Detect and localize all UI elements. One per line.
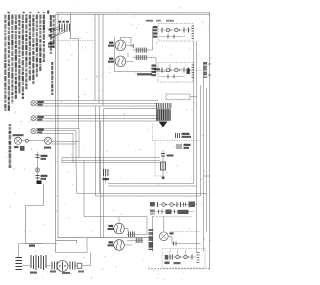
wire fuse link a xyxy=(22,140,26,142)
P2 lamp 1 dot xyxy=(170,29,171,30)
note line 11 xyxy=(39,15,41,20)
right bus wire 1 xyxy=(193,41,195,183)
wire bus C vertical xyxy=(102,14,104,106)
P2B contact bar 1 xyxy=(161,68,163,73)
capacitor lead top xyxy=(19,243,26,245)
wire bake feed horizontal xyxy=(84,216,119,218)
switch stub bar xyxy=(132,44,134,48)
wire bundle2 c xyxy=(36,120,158,122)
wire bundle4 a xyxy=(62,157,160,159)
sensor contact xyxy=(161,153,165,155)
infinite switch SW1 contacts xyxy=(135,48,137,53)
wire run y193 xyxy=(77,192,207,194)
motor box top run xyxy=(26,243,58,245)
chain row1 end blob xyxy=(189,202,196,208)
wire bus L2 corner to lower oven xyxy=(58,237,151,239)
note line 1 xyxy=(4,15,6,20)
P2B wire label blobs xyxy=(152,65,157,67)
P2 internal wire xyxy=(159,29,191,31)
wire E3 top run xyxy=(119,216,147,218)
selector lamp 2 xyxy=(184,255,188,259)
connector box link xyxy=(190,96,197,98)
capacitor lead up xyxy=(18,244,20,258)
surface unit box right xyxy=(169,64,171,72)
wire SW1 feed xyxy=(133,49,148,51)
inner box left vertical xyxy=(70,14,72,38)
latch switch cluster xyxy=(103,169,105,176)
door switch DS2 contact xyxy=(36,175,40,177)
terminal T1 circled-X xyxy=(31,101,36,106)
wire SW2 feed xyxy=(133,56,148,58)
motor internal top line xyxy=(56,251,88,253)
wire E1 drop xyxy=(130,37,132,47)
wire bus F vertical lower xyxy=(103,109,105,238)
wire fuse out right b xyxy=(52,143,76,145)
sensor dashed link xyxy=(155,175,163,177)
right bus wire 4 xyxy=(203,63,205,252)
selector pin header xyxy=(197,252,200,254)
connector P1 pin rows xyxy=(156,103,158,109)
fuse F1 circled-X xyxy=(14,137,21,144)
selector tick 1 xyxy=(169,250,171,254)
control box P2B dashed outline xyxy=(158,63,193,83)
P2B lamp 2 dot xyxy=(179,69,180,70)
wire bus B vertical xyxy=(98,14,100,103)
element E2 label block xyxy=(109,58,114,60)
door switch DS1 contact xyxy=(36,154,40,156)
chain row1 lamp 2 dot xyxy=(174,204,175,205)
wire door chain bottom run xyxy=(26,243,43,245)
selector tick 2 xyxy=(177,250,179,255)
sensor label blob xyxy=(167,155,174,157)
wire bundle3 c drop xyxy=(72,133,74,162)
terminal label L1 N L2 blob xyxy=(59,21,62,23)
wire fuse link b xyxy=(28,140,44,142)
wire E2 up xyxy=(127,53,129,57)
P2B internal wire 2 xyxy=(159,76,185,78)
thermostat cluster bars xyxy=(176,144,178,149)
motor wire mid4 xyxy=(76,265,78,267)
P2 pin header xyxy=(192,25,195,27)
P2B contact bar 2 xyxy=(183,68,185,73)
chain row1 lamp 2 xyxy=(170,203,174,207)
wire label block row2 xyxy=(150,210,155,213)
wire bundle1 a xyxy=(36,100,158,102)
mark above notes c xyxy=(38,12,40,13)
wire SW3 riser xyxy=(146,217,148,235)
terminal block TB1 screws xyxy=(59,24,61,32)
power cord label blobs xyxy=(49,29,52,31)
element E1 right-front burner xyxy=(115,40,126,51)
selector lamp 2 dot xyxy=(188,256,189,257)
P2B lamp 1 dot xyxy=(170,69,171,70)
P2 lower part xyxy=(167,35,169,39)
power cord fan wires xyxy=(54,26,67,37)
infinite switch SW2 contacts xyxy=(135,55,137,60)
chain row1 lamp 1 xyxy=(162,203,166,207)
P2B lamp 2 xyxy=(175,68,179,72)
sensor end blob xyxy=(162,177,165,180)
connector dashed drop xyxy=(152,124,154,141)
wire door chain drop a xyxy=(43,184,45,206)
door switch label 2 blob xyxy=(41,175,48,177)
wire bundle2 b xyxy=(36,117,158,119)
right short stub y176 xyxy=(204,175,210,177)
motor riser right b xyxy=(90,252,92,265)
selector lower blob a xyxy=(165,262,170,265)
selector lamp 1 dot xyxy=(180,256,181,257)
thermostat label blob xyxy=(184,144,191,146)
terminal T2 circled-X xyxy=(31,116,36,121)
note side column xyxy=(51,62,53,65)
element E2 right-rear burner xyxy=(115,56,126,67)
surface unit box bottom xyxy=(115,71,171,73)
wire SW1 up xyxy=(152,28,154,50)
note line 8 xyxy=(29,15,31,20)
relay wire dashed xyxy=(153,140,201,142)
chain row1 wire xyxy=(158,204,197,206)
wire SW2 drop xyxy=(155,57,157,70)
oven lamp riser xyxy=(163,216,165,232)
wire door chain jog left xyxy=(26,205,44,207)
connector P1 body ticks xyxy=(156,110,158,121)
wire bus A vertical xyxy=(94,14,96,101)
wire neutral drop to motor box xyxy=(76,240,78,243)
P2B pin header xyxy=(192,64,195,66)
relay cluster bars xyxy=(30,255,32,268)
wire SW3 feed xyxy=(127,233,144,235)
oven lamp symbol xyxy=(35,168,39,172)
chain row2 wire xyxy=(156,211,194,213)
connector P1 hatch xyxy=(156,109,171,122)
note line 3 xyxy=(11,15,13,20)
note line 6 xyxy=(22,15,24,21)
oven lamp out run xyxy=(172,242,201,244)
selector tick 3 xyxy=(185,250,187,255)
wire SW1 to P2 xyxy=(153,27,159,29)
note heading column 2 xyxy=(53,15,55,18)
inner vertical x78 xyxy=(78,39,80,116)
wire bus L2 vertical xyxy=(57,14,59,238)
terminal dashed leader xyxy=(188,69,202,71)
wire label top right blob xyxy=(154,68,160,70)
wire E3 to cluster xyxy=(127,229,129,232)
door switch label blob xyxy=(41,155,48,157)
P2B contact bar 3 xyxy=(188,68,190,73)
element E3 left-front burner xyxy=(114,223,125,234)
frame tick lower xyxy=(208,74,211,76)
chain row2 label blob xyxy=(178,210,189,214)
wire E2 right xyxy=(126,60,134,62)
motor wire mid1 xyxy=(47,265,51,267)
wire E3 top xyxy=(118,217,120,224)
chain row1 tick pair xyxy=(183,203,185,207)
infinite switch SW4 contacts xyxy=(135,238,137,244)
wire bundle3 to y193 xyxy=(75,160,78,193)
selector lamp 1 xyxy=(176,255,180,259)
wire bundle4 c xyxy=(62,162,160,164)
wire label BK blob xyxy=(29,245,35,247)
wire label block row1 xyxy=(150,202,155,206)
chain row2 bar b xyxy=(174,210,176,214)
motor wire right xyxy=(82,265,91,267)
wire bus E vertical lower xyxy=(100,121,102,238)
surface unit caption blob xyxy=(137,73,152,75)
P2 wire label blobs xyxy=(153,26,158,28)
right bus wire 5 xyxy=(206,88,208,232)
wire bundle1 d xyxy=(104,108,159,110)
relay cluster label blob xyxy=(30,272,37,274)
terminal T2 label blob xyxy=(37,116,44,118)
motor wire mid2 xyxy=(57,265,58,267)
note line 2 xyxy=(8,15,10,21)
oven box left xyxy=(152,216,154,252)
selector contact bar 2 xyxy=(191,255,193,260)
oven lamp label blob xyxy=(170,232,174,234)
mark above notes e xyxy=(43,12,45,13)
plug prong circle lower xyxy=(51,34,54,37)
wire E4 right xyxy=(124,244,132,246)
terminal block label text xyxy=(203,62,207,64)
selector lower blob b xyxy=(174,262,181,264)
door switch chain wire xyxy=(37,152,39,181)
chain row2 bars xyxy=(158,210,160,214)
surface unit box left xyxy=(114,37,116,72)
relay K1 contacts xyxy=(175,133,177,138)
wire E1 top xyxy=(120,37,122,40)
sensor chain wire xyxy=(162,150,164,178)
control box P2 dashed outline xyxy=(158,24,193,42)
wire E1 top run xyxy=(121,36,132,38)
wire bus D2 vertical mid xyxy=(99,106,101,193)
wire bundle2 a xyxy=(36,115,158,117)
note line 10 xyxy=(36,15,38,20)
plug arrow P4 xyxy=(37,181,42,185)
P2 internal wire 2 xyxy=(159,36,185,38)
wire E3 right xyxy=(124,228,128,230)
element E1 label block xyxy=(109,42,114,44)
P2 contact bar 2 xyxy=(183,28,185,33)
mark above notes d xyxy=(30,12,32,13)
wire run y183 xyxy=(108,182,194,184)
terminal T3 circled-X xyxy=(31,128,36,133)
small bars under lamp xyxy=(173,242,175,246)
wire bundle4 b xyxy=(62,159,160,161)
chain row1 contact bars 2 xyxy=(176,202,178,207)
wire SW2 out xyxy=(147,56,156,58)
wire bus L1 vertical xyxy=(55,14,57,252)
P2B lamp 1 xyxy=(166,68,170,72)
P2 contact bar 3 xyxy=(188,28,190,33)
contact set bars xyxy=(51,262,53,270)
P2B internal wire xyxy=(159,69,191,71)
note line 12 xyxy=(43,15,45,20)
fuse F2 circled-X xyxy=(44,137,51,144)
wire bundle3 b xyxy=(36,130,76,132)
wire bundle2 c corner xyxy=(78,116,80,128)
wire bundle4 left corner xyxy=(61,158,63,163)
sensor body xyxy=(161,162,166,170)
capacitor stack xyxy=(16,257,23,259)
fuse F1 label below blob xyxy=(14,146,19,148)
wire bundle3 a drop xyxy=(78,128,80,157)
mark above notes b xyxy=(23,12,25,13)
wire bake feed vertical xyxy=(83,160,85,217)
wire bus D vertical mid xyxy=(95,106,97,196)
lamp small xyxy=(25,139,28,142)
note line 7 xyxy=(25,15,27,17)
overload protector xyxy=(77,263,82,268)
frame right border xyxy=(209,12,211,269)
wire bundle3 a xyxy=(36,127,79,129)
element E4 left-rear burner xyxy=(114,240,125,251)
right bus wire 3 xyxy=(200,85,202,196)
frame top line outer xyxy=(56,11,210,13)
connector label box xyxy=(166,94,190,100)
infinite switch SW3 contacts xyxy=(128,232,130,238)
wire door chain drop b xyxy=(25,206,27,244)
wire E1 right xyxy=(126,44,134,46)
oven box top xyxy=(153,215,193,217)
terminal T1 label blob xyxy=(37,101,44,103)
motor wire left xyxy=(22,265,30,267)
right bus wire 2 xyxy=(196,41,198,252)
wire SW1 out xyxy=(147,49,152,51)
sensor dashed drop xyxy=(154,141,156,177)
wire dashed junction box bottom xyxy=(57,39,95,41)
P2 lamp 2 dot xyxy=(179,29,180,30)
motor riser right a xyxy=(86,238,88,253)
terminal T3 label blob xyxy=(37,129,44,131)
wire SW3 out xyxy=(144,233,148,235)
frame bottom dashed xyxy=(148,268,210,270)
frame tick upper xyxy=(208,63,211,65)
chain row1 contact bar xyxy=(157,202,159,207)
P2 lamp 1 xyxy=(166,28,170,32)
fuse F2 label blob xyxy=(44,147,51,149)
motor brush bars xyxy=(69,262,71,270)
note heading column xyxy=(50,15,52,20)
labels above P2 box xyxy=(146,20,153,22)
wire run y186 xyxy=(108,185,197,187)
note line 4 xyxy=(15,15,17,20)
chain row2 comp blob xyxy=(166,210,172,215)
frame top line inner xyxy=(56,13,210,15)
element E4 label block xyxy=(109,241,114,243)
relay K1 label blob xyxy=(182,133,190,135)
mark above notes a xyxy=(8,12,10,13)
wire bundle3 c xyxy=(36,132,73,134)
connector P1 plug wedge xyxy=(159,122,168,128)
wire neutral lower run xyxy=(56,239,77,241)
note line 5 xyxy=(18,15,20,19)
motor wire mid3 xyxy=(68,265,69,267)
chain row1 lamp 1 dot xyxy=(166,204,167,205)
oven lamp circled-X xyxy=(159,232,168,241)
fuse F1 label above blob xyxy=(13,134,24,136)
wire bundle1 c xyxy=(36,105,158,107)
plug prong circle upper xyxy=(51,28,54,31)
selector contact bar 1 xyxy=(169,255,171,260)
P2B lower part xyxy=(167,75,169,79)
selector switch dashed box xyxy=(162,249,205,269)
wire SW4 feed xyxy=(127,239,144,241)
element E3 label block xyxy=(109,225,114,227)
wire run y196 xyxy=(96,195,201,197)
oven lamp out drop xyxy=(171,236,173,243)
P2 contact bar 1 xyxy=(161,28,163,33)
wire bundle1 b xyxy=(36,102,158,104)
wire fuse out right xyxy=(52,141,79,143)
oven lamp out xyxy=(168,235,172,237)
selector internal wire xyxy=(166,256,196,258)
left caption WIRING INFORMATION xyxy=(9,124,12,126)
terminal leader blob xyxy=(187,69,190,75)
note line 9 xyxy=(32,15,34,18)
oven lamp dashed right xyxy=(170,231,201,233)
motor M1 xyxy=(57,261,68,272)
oven label text block xyxy=(149,229,154,231)
mark above notes f xyxy=(47,11,49,14)
wire bundle3 b drop xyxy=(75,131,77,160)
P2 lamp 2 xyxy=(175,28,179,32)
inner box jog xyxy=(71,38,79,40)
